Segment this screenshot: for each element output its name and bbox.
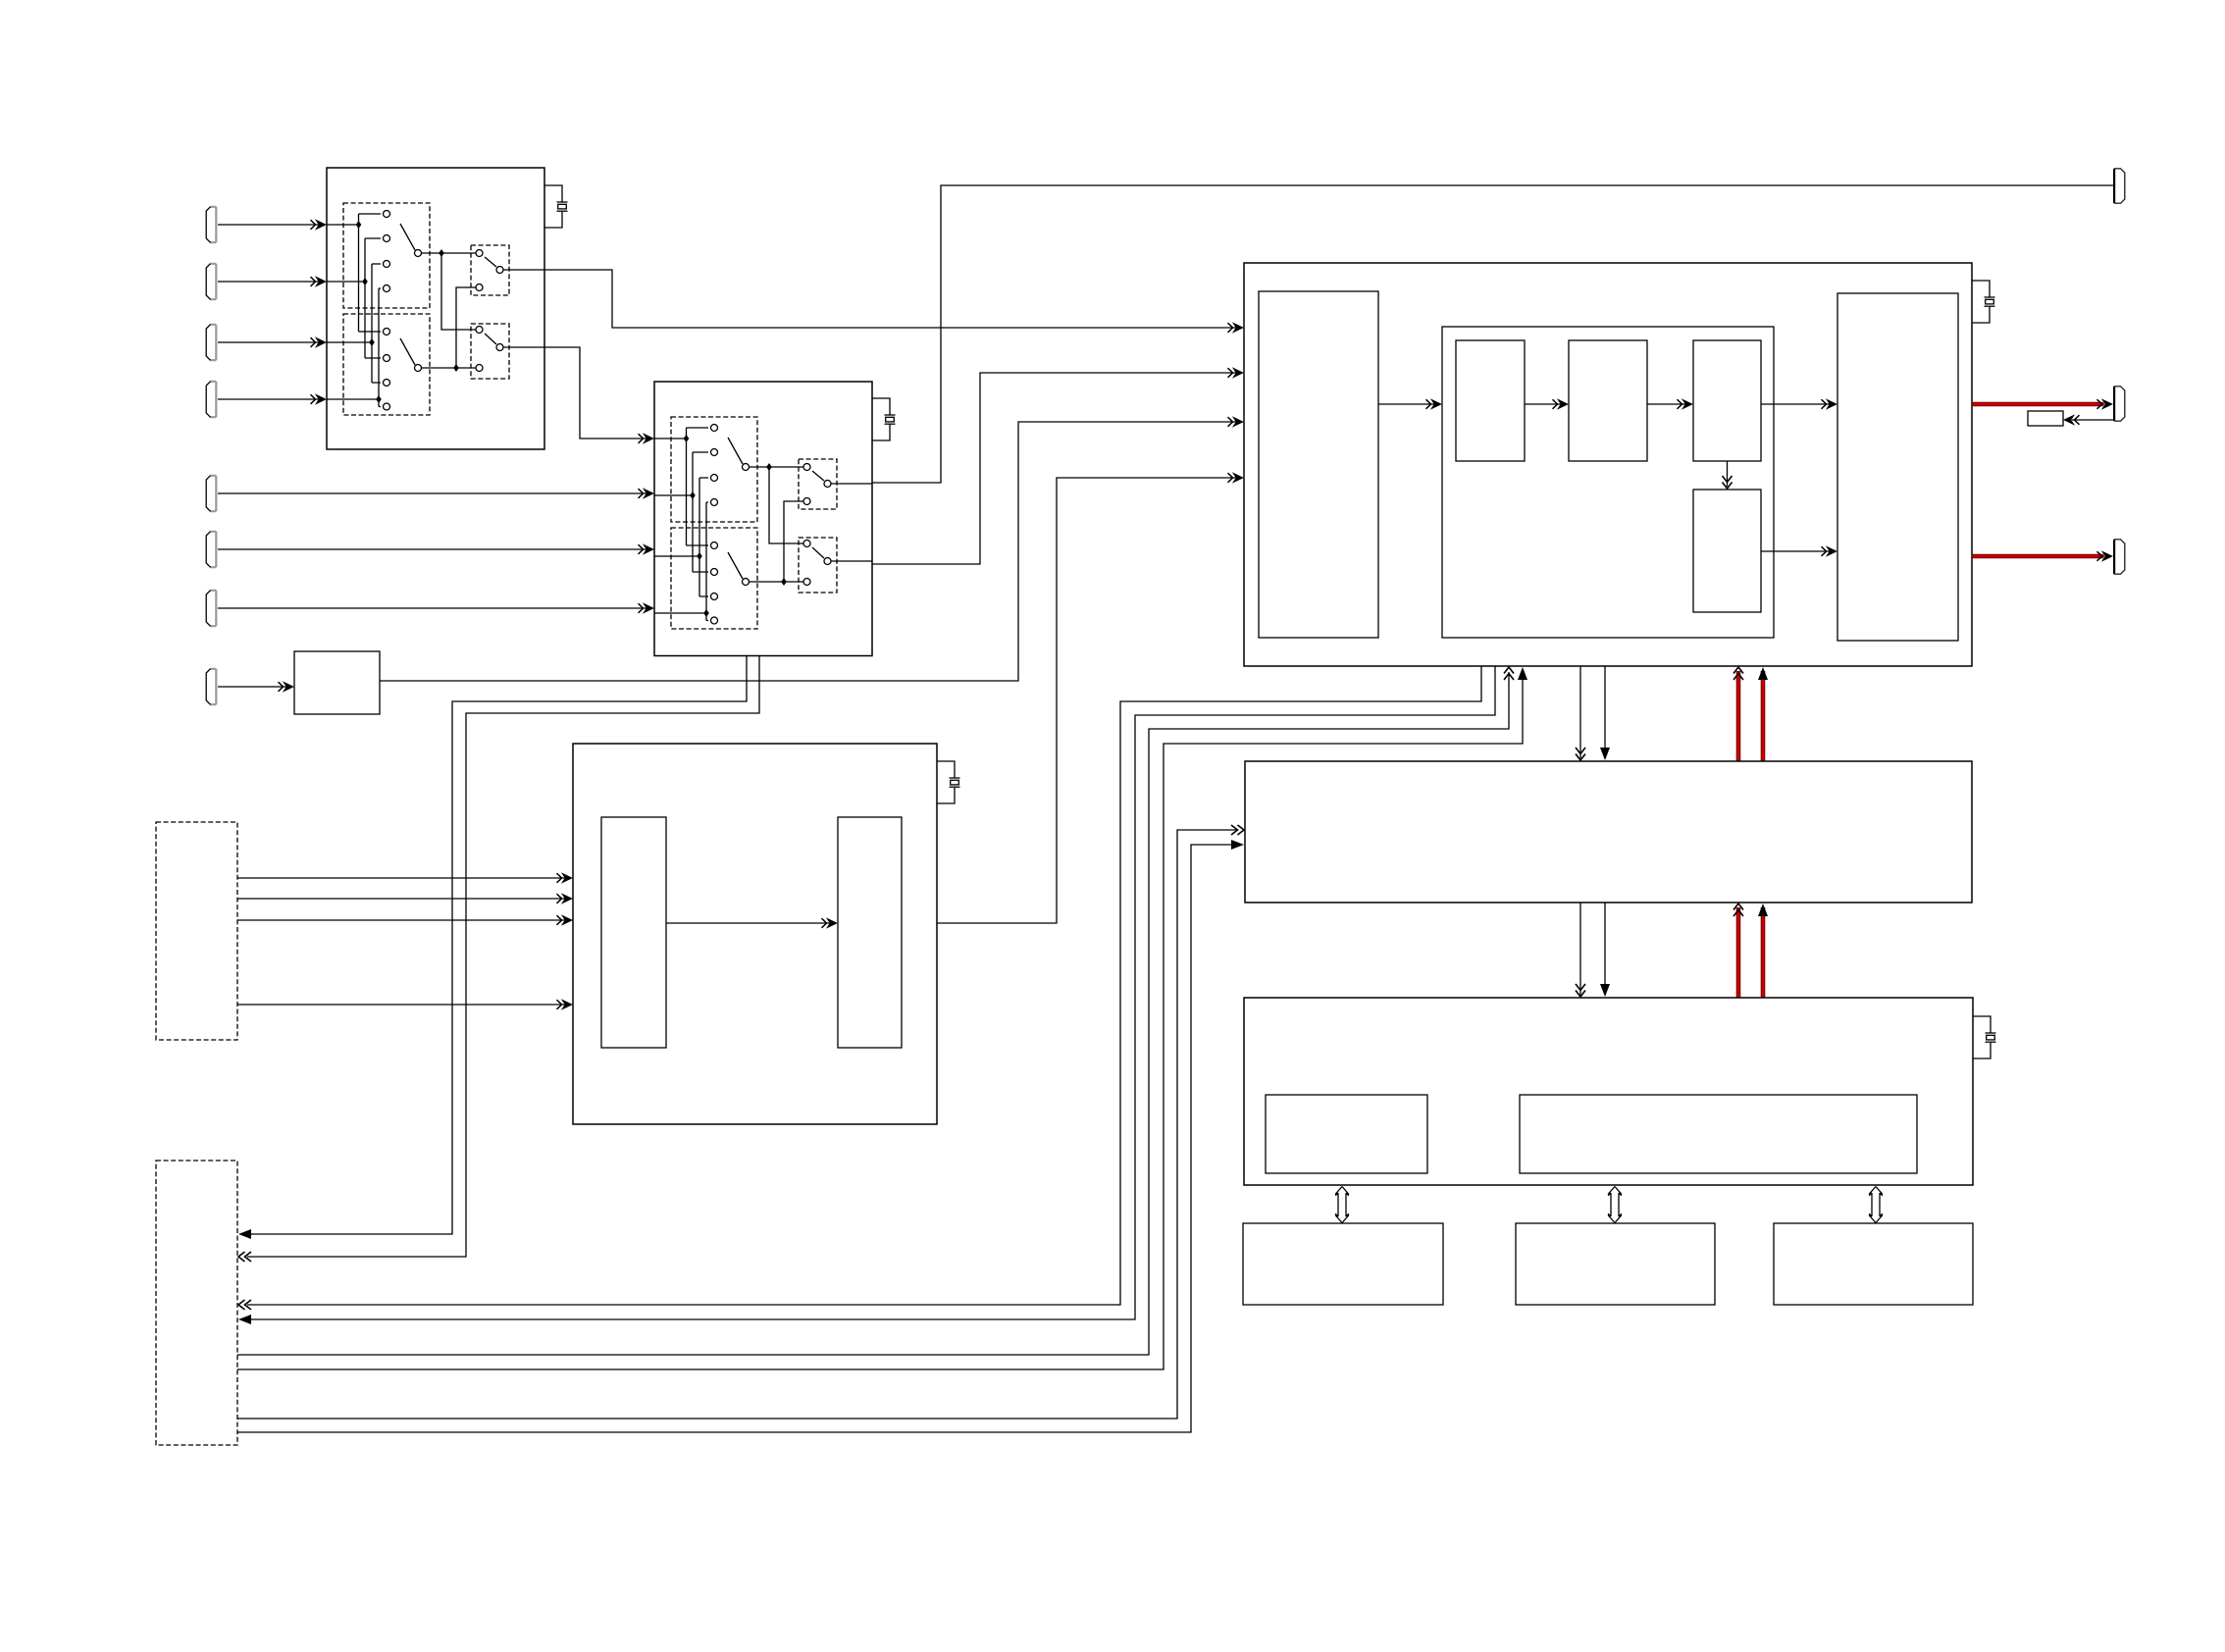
double arrow IC6 to M1 <box>1335 1187 1349 1223</box>
connector CN2 <box>206 264 216 300</box>
wire stage D to output-if <box>1761 550 1831 552</box>
connector CN13 <box>2114 540 2125 574</box>
wire IC2 bottom2 to CN10 dashed connector <box>247 656 759 1258</box>
wire IC3 ctrl out2 to CN10 <box>247 666 1495 1319</box>
IC6 sub-box left <box>1266 1095 1427 1173</box>
wire CN3 to IC1 <box>218 341 321 343</box>
IC2 internal switches <box>654 417 872 629</box>
wire CN8 to buffer U8 <box>218 686 287 688</box>
connector CN5 <box>206 476 216 512</box>
wire IC3 to IC5 bus1 <box>1579 666 1581 759</box>
termination resistor R1 <box>2028 411 2063 426</box>
IC4 sub-box right <box>838 817 902 1048</box>
wire IC1 out2 to IC2 input1 <box>544 347 647 439</box>
wire CN4 to IC1 <box>218 398 321 400</box>
wire CN10 to IC3 ctrl in1 <box>237 672 1509 1355</box>
dashed connector CN11 <box>156 822 237 1040</box>
wire IC5 to IC6 bus2 <box>1604 903 1606 994</box>
IC3 processing container sub-box <box>1442 327 1774 638</box>
wire IC1 out1 to IC3 input1 <box>544 270 1237 328</box>
double arrow IC6 to M2 <box>1608 1187 1622 1223</box>
connector CN6 <box>206 532 216 568</box>
crystal X4 loop <box>1973 1016 1996 1058</box>
wire stage C to output-if <box>1761 403 1831 405</box>
wire U8 out to IC3 input3 <box>380 422 1237 681</box>
crystal X2 loop <box>872 398 896 440</box>
wire CN10 to IC5 in1 <box>237 830 1238 1419</box>
double arrow IC6 to M3 <box>1869 1187 1883 1223</box>
IC3 box <box>1244 263 1972 666</box>
wire IC5 to IC6 bus1 <box>1579 903 1581 996</box>
red bus IC5 to IC3 line2 <box>1761 671 1766 761</box>
wire CN11 to IC4 line2 <box>237 898 566 900</box>
IC3 stage box A <box>1456 340 1525 461</box>
wire CN11 to IC4 line1 <box>237 877 566 879</box>
memory box M3 <box>1774 1223 1973 1305</box>
wire IC2 out1 to connector CN9 <box>872 185 2113 483</box>
crystal X3 loop <box>1972 281 1995 323</box>
wire IC4 out to IC3 input4 <box>937 478 1237 923</box>
IC3 stage box B <box>1569 340 1647 461</box>
memory box M1 <box>1243 1223 1443 1305</box>
memory box M2 <box>1516 1223 1715 1305</box>
wire CN12 to R1 <box>2072 419 2113 421</box>
wire CN11 to IC4 line3 <box>237 919 566 921</box>
dashed connector CN10 <box>156 1161 237 1445</box>
IC4 box <box>573 744 937 1124</box>
crystal X5 loop <box>937 761 960 803</box>
wire IC4 internal <box>666 922 831 924</box>
connector CN12 <box>2114 387 2125 421</box>
wire CN6 to IC2 <box>218 548 647 550</box>
wire input-if to stage A <box>1378 403 1434 405</box>
IC6 box <box>1244 998 1973 1185</box>
IC1 internal switches <box>327 203 544 415</box>
red video out1 <box>1972 402 2103 407</box>
IC1 switch matrix box <box>327 168 544 449</box>
wire IC2 bottom1 to CN10 dashed connector <box>247 656 747 1235</box>
wire CN10 to IC5 in2 <box>237 845 1238 1432</box>
connector CN1 <box>206 207 216 243</box>
wire IC3 to IC5 bus2 <box>1604 666 1606 757</box>
buffer box U8 <box>294 651 380 714</box>
connector CN4 <box>206 382 216 418</box>
red video out2 <box>1972 554 2103 559</box>
red bus IC6 to IC5 line2 <box>1761 907 1766 998</box>
wire CN10 to IC3 ctrl in2 <box>237 672 1523 1369</box>
wire CN11 to IC4 line4 <box>237 1004 566 1006</box>
IC2 switch matrix box <box>654 382 872 656</box>
wire stage B to C <box>1647 403 1686 405</box>
wire IC3 ctrl out1 to CN10 <box>247 666 1481 1305</box>
wire stage C down to D <box>1727 461 1729 487</box>
connector CN9 top right <box>2114 169 2125 203</box>
connector CN7 <box>206 591 216 627</box>
wire CN2 to IC1 <box>218 281 321 283</box>
red bus IC6 to IC5 line1 <box>1736 907 1741 998</box>
IC3 input interface sub-box <box>1259 291 1378 638</box>
red bus IC5 to IC3 line1 <box>1736 671 1741 761</box>
connector CN3 <box>206 325 216 361</box>
wire CN1 to IC1 <box>218 224 321 226</box>
IC4 sub-box left <box>601 817 666 1048</box>
crystal X1 loop <box>544 185 568 228</box>
wire IC2 out2 to IC3 input2 <box>872 373 1237 564</box>
wire CN5 to IC2 <box>218 492 647 494</box>
IC6 sub-box right <box>1520 1095 1917 1173</box>
IC3 output interface sub-box <box>1837 293 1958 641</box>
wire CN7 to IC2 <box>218 607 647 609</box>
IC3 stage box D <box>1693 490 1761 612</box>
IC5 box <box>1245 761 1972 903</box>
IC3 stage box C <box>1693 340 1761 461</box>
connector CN8 <box>206 669 216 705</box>
wire stage A to B <box>1525 403 1562 405</box>
